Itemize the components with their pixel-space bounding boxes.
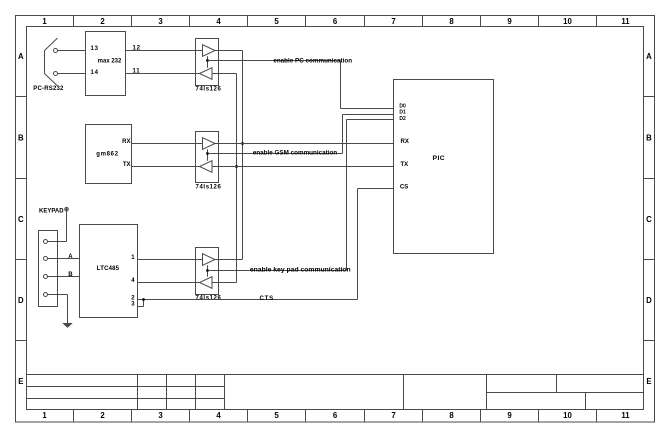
svg-text:3: 3 [158, 17, 163, 26]
svg-text:8: 8 [449, 17, 454, 26]
svg-text:4: 4 [216, 411, 221, 420]
svg-text:LTC485: LTC485 [97, 266, 120, 272]
svg-text:enable key pad communication: enable key pad communication [250, 266, 351, 273]
svg-text:CS: CS [400, 185, 408, 191]
svg-text:TX: TX [401, 162, 409, 168]
svg-text:RX: RX [122, 139, 130, 145]
svg-text:5: 5 [274, 411, 279, 420]
svg-text:PIC: PIC [433, 155, 446, 162]
svg-text:1: 1 [42, 17, 47, 26]
svg-text:11: 11 [621, 411, 630, 420]
svg-text:D: D [646, 296, 652, 305]
svg-text:E: E [18, 377, 23, 386]
svg-text:B: B [18, 133, 24, 142]
svg-text:6: 6 [333, 411, 338, 420]
svg-text:2: 2 [100, 411, 105, 420]
svg-text:PC-RS232: PC-RS232 [33, 86, 64, 92]
svg-text:10: 10 [563, 411, 572, 420]
svg-text:7: 7 [391, 411, 395, 420]
svg-text:A: A [68, 254, 73, 260]
svg-text:14: 14 [91, 70, 99, 76]
svg-text:2: 2 [100, 17, 105, 26]
svg-text:B: B [646, 133, 652, 142]
svg-text:max 232: max 232 [98, 58, 122, 64]
svg-text:C: C [18, 215, 24, 224]
svg-text:A: A [646, 52, 652, 61]
svg-text:9: 9 [507, 411, 512, 420]
svg-text:6: 6 [333, 17, 338, 26]
svg-text:D2: D2 [399, 116, 406, 122]
svg-text:13: 13 [91, 46, 99, 52]
svg-text:7: 7 [391, 17, 395, 26]
svg-text:TX: TX [123, 162, 131, 168]
svg-text:8: 8 [449, 411, 454, 420]
svg-text:4: 4 [216, 17, 221, 26]
svg-text:74ls126: 74ls126 [196, 87, 222, 93]
svg-text:D0: D0 [399, 104, 406, 110]
svg-text:D1: D1 [399, 110, 406, 116]
svg-text:A: A [18, 52, 24, 61]
svg-text:10: 10 [563, 17, 572, 26]
svg-text:RX: RX [401, 139, 409, 145]
svg-text:5: 5 [274, 17, 279, 26]
svg-text:enable GSM communication: enable GSM communication [253, 150, 337, 157]
svg-text:3: 3 [158, 411, 163, 420]
svg-text:B: B [68, 272, 73, 278]
svg-text:9: 9 [507, 17, 512, 26]
svg-text:E: E [646, 377, 651, 386]
svg-text:KEYPAD: KEYPAD [39, 209, 64, 215]
svg-text:1: 1 [42, 411, 47, 420]
svg-text:74ls126: 74ls126 [196, 185, 222, 191]
svg-text:enable PC communication: enable PC communication [273, 57, 352, 64]
svg-text:gm862: gm862 [96, 152, 119, 158]
svg-text:D: D [18, 296, 24, 305]
svg-text:74ls126: 74ls126 [196, 296, 222, 302]
svg-text:C: C [646, 215, 652, 224]
svg-text:CTS: CTS [260, 296, 274, 302]
svg-text:11: 11 [621, 17, 630, 26]
